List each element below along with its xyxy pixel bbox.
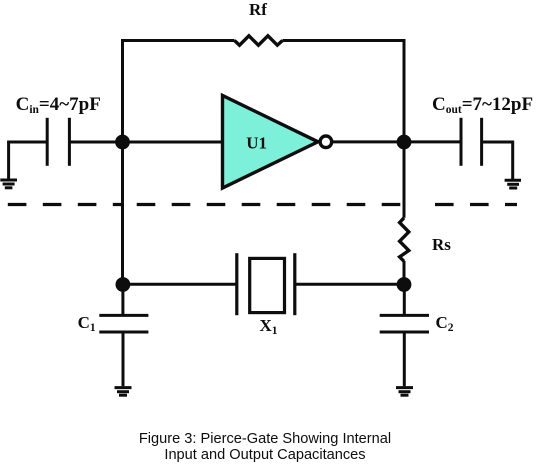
ground far left (input side) — [0, 142, 17, 188]
node crystal right junction — [397, 277, 412, 292]
capacitor Cin — [47, 118, 69, 166]
wire node to C2 — [403, 285, 406, 315]
node crystal left junction — [116, 277, 131, 292]
wire node to C1 — [121, 285, 124, 315]
wire node to crystal left plate — [123, 283, 237, 286]
wire C1 to ground — [122, 332, 125, 386]
capacitor C2 — [380, 315, 429, 332]
wire Cout to ground — [482, 141, 513, 180]
wire Rs to bottom right node — [403, 261, 406, 285]
wire crystal right plate to node — [295, 283, 404, 286]
svg-text:Figure 3: Pierce-Gate Showing: Figure 3: Pierce-Gate Showing Internal — [139, 431, 391, 447]
svg-text:Rf: Rf — [249, 0, 267, 19]
node output junction — [397, 135, 412, 150]
svg-text:Input and Output Capacitances: Input and Output Capacitances — [164, 447, 365, 463]
wire top feedback right segment — [283, 39, 406, 42]
wire Cin to inverter input — [69, 141, 222, 144]
label C1 — [78, 313, 96, 334]
crystal X1 — [237, 253, 295, 315]
label Cout=7~12pF — [432, 94, 533, 116]
dashed separator line — [0, 203, 517, 206]
wire output bubble to Cout — [333, 140, 461, 143]
caption line 1 — [139, 431, 391, 447]
wire left feedback vertical — [121, 39, 124, 142]
ground below C2 — [396, 388, 413, 396]
label Rs — [432, 235, 451, 254]
svg-text:U1: U1 — [246, 133, 267, 152]
svg-text:Rs: Rs — [432, 235, 451, 254]
wire left vertical node to crystal node — [121, 142, 124, 284]
wire C2 to ground — [403, 332, 406, 386]
label C2 — [436, 313, 454, 334]
resistor Rs — [400, 218, 409, 261]
wire ground to Cin — [7, 141, 47, 144]
wire top feedback left segment — [121, 39, 235, 42]
caption line 2 — [164, 447, 365, 463]
label Rf — [249, 0, 267, 19]
ground below C1 — [115, 388, 132, 396]
resistor Rf — [235, 36, 283, 45]
label X1 — [260, 316, 278, 337]
capacitor Cout — [461, 118, 482, 166]
wire right vertical from top to output node — [403, 39, 406, 142]
label U1 — [246, 133, 267, 152]
wire right vertical output node down to Rs — [403, 142, 406, 218]
node input junction — [115, 135, 130, 150]
ground right (output side) — [505, 180, 521, 188]
inverter U1 — [223, 96, 319, 189]
label Cin=4~7pF — [16, 94, 101, 116]
capacitor C1 — [99, 315, 148, 332]
inverter output bubble — [320, 136, 332, 148]
svg-text:Cin=4~7pF: Cin=4~7pF — [16, 94, 101, 116]
